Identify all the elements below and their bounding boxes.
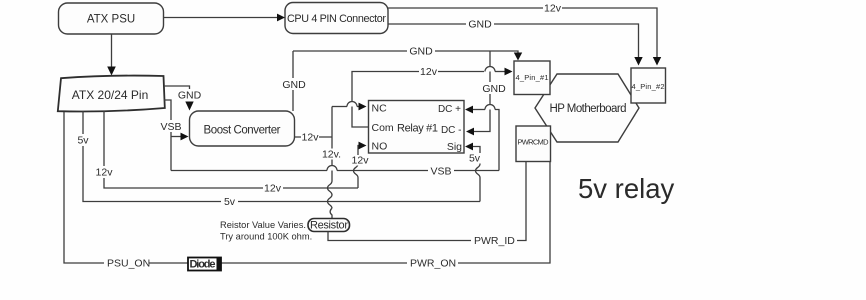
- svg-text:PSU_ON: PSU_ON: [107, 258, 150, 270]
- wire 5v vertical to Sig with S-jog over VSB: [465, 143, 483, 202]
- svg-text:VSB: VSB: [430, 166, 451, 178]
- wire resistor to PWR_ID to PWRCMD: [328, 162, 526, 248]
- wire PSU_ON / PWR_ON bottom: [64, 112, 550, 270]
- wire 12v from ATX to NO: [94, 111, 358, 195]
- svg-text:4_Pin_#1: 4_Pin_#1: [516, 73, 549, 82]
- wire Com to 12v top wire with hop over GND vertical, arrow into 4_Pin_#1: [352, 66, 513, 127]
- box ATX 20/24 Pin: [58, 76, 165, 112]
- wire GND vertical to relay DC-: [466, 51, 508, 135]
- wire 12v CPU to 4_Pin_#2: [388, 2, 661, 66]
- wire 12v vertical to NO with S-jog over VSB: [350, 142, 370, 188]
- relay box Relay #1: [369, 101, 465, 154]
- wire 5v from ATX to bottom: [74, 111, 480, 208]
- wire 12v vertical from NC down to resistor with S-jogs: [322, 107, 342, 220]
- HP Motherboard: [535, 74, 639, 142]
- box PWRCMD: [516, 126, 551, 162]
- svg-text:GND: GND: [468, 19, 492, 31]
- resistor note text: [220, 220, 312, 242]
- svg-text:ATX PSU: ATX PSU: [87, 14, 135, 26]
- svg-text:PWR_ON: PWR_ON: [410, 258, 456, 270]
- box Boost Converter: [190, 111, 295, 146]
- diode box: [188, 258, 221, 271]
- svg-text:PWR_ID: PWR_ID: [474, 235, 515, 247]
- svg-text:CPU 4 PIN Connector: CPU 4 PIN Connector: [287, 13, 386, 25]
- svg-text:ATX 20/24 Pin: ATX 20/24 Pin: [72, 88, 149, 102]
- svg-text:Resistor: Resistor: [310, 220, 348, 232]
- svg-text:DC -: DC -: [441, 125, 462, 136]
- box 4_Pin_#1: [514, 61, 550, 95]
- wire DC+ line from VSB vertical with hop over GND vertical: [465, 105, 499, 171]
- svg-text:5v: 5v: [224, 196, 236, 208]
- svg-text:NC: NC: [372, 103, 388, 115]
- svg-text:GND: GND: [482, 83, 506, 95]
- svg-text:PWRCMD: PWRCMD: [518, 138, 550, 147]
- svg-text:HP Motherboard: HP Motherboard: [550, 103, 627, 115]
- svg-text:4_Pin_#2: 4_Pin_#2: [632, 82, 665, 91]
- box 4_Pin_#2: [631, 68, 666, 103]
- svg-text:GND: GND: [282, 79, 306, 91]
- wire boost 12v output to vertical: [294, 132, 332, 144]
- box ATX PSU: [59, 3, 164, 34]
- svg-text:12v: 12v: [420, 66, 438, 78]
- wire GND drop to boost converter: [281, 51, 308, 111]
- svg-text:Relay #1: Relay #1: [397, 123, 438, 135]
- svg-text:NO: NO: [372, 141, 388, 153]
- wire ATX PSU to CPU 4 PIN Connector: [164, 14, 285, 22]
- svg-text:VSB: VSB: [160, 121, 181, 133]
- svg-text:12v: 12v: [302, 132, 320, 144]
- svg-text:5v: 5v: [469, 153, 481, 165]
- svg-text:Try around 100K ohm.: Try around 100K ohm.: [220, 232, 312, 242]
- box CPU 4 PIN Connector: [285, 3, 388, 34]
- svg-text:5v: 5v: [77, 135, 89, 147]
- svg-text:12v: 12v: [264, 183, 282, 195]
- resistor box: [308, 219, 350, 232]
- svg-text:DC +: DC +: [438, 104, 461, 115]
- wire GND mid horizontal with arrow into 4_Pin_#1 top: [293, 45, 522, 61]
- svg-text:Diode: Diode: [190, 259, 216, 271]
- svg-text:GND: GND: [409, 46, 433, 58]
- svg-text:5v relay: 5v relay: [578, 173, 675, 204]
- svg-text:12v.: 12v.: [322, 149, 341, 161]
- wire NC line with hop over Com vertical: [332, 102, 367, 111]
- svg-text:12v: 12v: [544, 3, 562, 15]
- svg-text:Boost Converter: Boost Converter: [204, 125, 281, 137]
- wire VSB from ATX down with arrow into boost: [158, 100, 189, 171]
- wire ATX PSU down to ATX 20/24 Pin: [107, 34, 116, 76]
- wire ATX GND to boost top: [164, 86, 203, 111]
- svg-text:12v: 12v: [352, 155, 370, 167]
- big label 5v relay: [578, 173, 675, 204]
- svg-text:Reistor Value Varies.: Reistor Value Varies.: [220, 220, 306, 230]
- svg-text:Sig: Sig: [447, 141, 462, 153]
- wire VSB horizontal with hop over 12v vertical: [171, 165, 499, 178]
- wire GND CPU to 4_Pin_#2: [388, 18, 643, 66]
- svg-text:12v: 12v: [96, 167, 114, 179]
- svg-text:GND: GND: [178, 90, 202, 102]
- svg-text:Com: Com: [372, 122, 394, 134]
